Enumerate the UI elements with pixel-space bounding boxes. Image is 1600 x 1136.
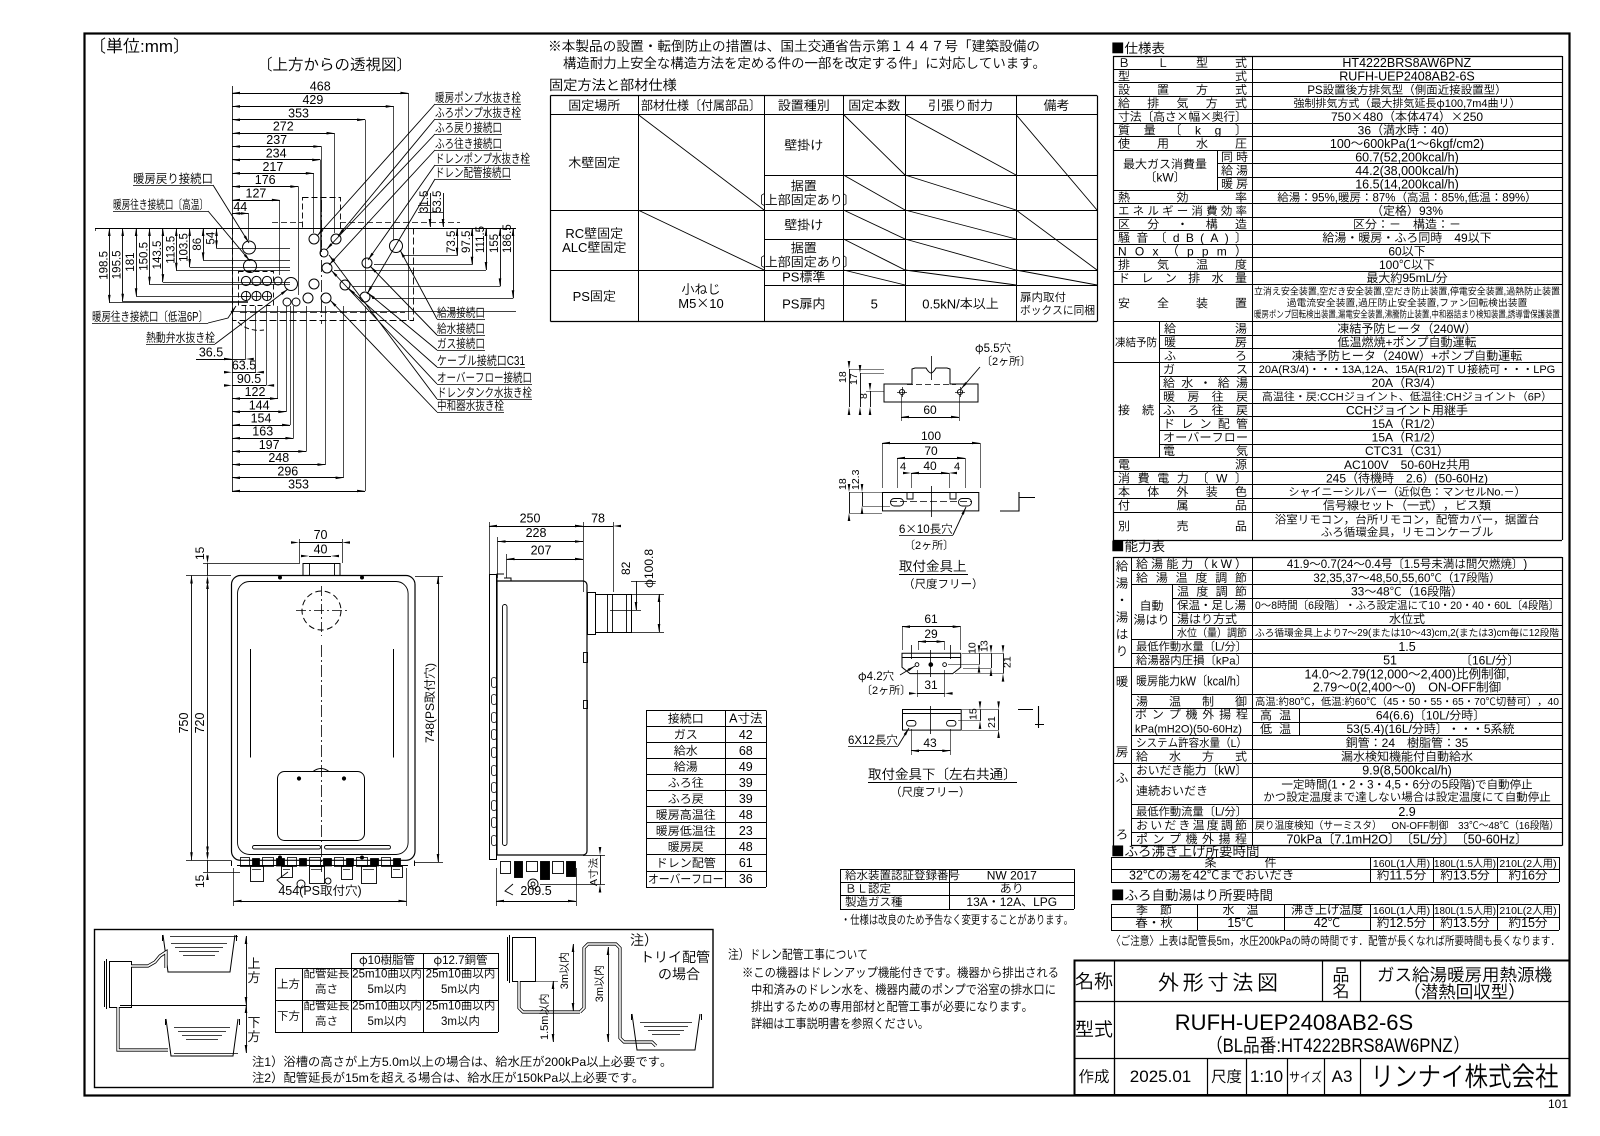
svg-text:35: 35 [1455,736,1469,750]
svg-text:ON-OFF: ON-OFF [1392,821,1429,832]
svg-text:): ) [1553,858,1557,870]
svg-text:5.0m: 5.0m [382,1055,409,1069]
svg-text:PS: PS [782,296,800,311]
svg-text:127: 127 [246,187,267,201]
svg-text:95mL/: 95mL/ [1402,271,1436,285]
piping notes [252,1055,664,1069]
svg-text:15: 15 [193,874,207,888]
svg-text:): ) [1493,906,1496,917]
bracket lower: upper piece [902,653,961,673]
svg-text:49: 49 [1454,231,1468,245]
svg-text:48,50,55,60: 48,50,55,60 [1370,573,1431,585]
svg-text:RUFH-UEP2408AB2-6S: RUFH-UEP2408AB2-6S [1339,70,1474,84]
top view: left dimension stack [95,228,97,231]
bracket upper: phi5.5 label [976,342,1011,355]
svg-text:154: 154 [251,412,272,426]
svg-text:103.5: 103.5 [179,233,191,262]
svg-text:+: + [1431,349,1438,363]
svg-text:25m10: 25m10 [352,1001,387,1013]
svg-text:16: 16 [1521,868,1535,882]
svg-text:93%: 93% [1419,204,1443,218]
svg-text:LPG: LPG [1033,895,1057,909]
svg-text:0.7(24: 0.7(24 [1321,559,1354,571]
svg-text:245: 245 [1326,471,1346,485]
svg-text:70: 70 [314,528,328,542]
svg-text:17: 17 [848,373,860,385]
svg-text:ALC: ALC [562,240,587,255]
svg-text:4.2: 4.2 [867,671,883,683]
svg-text:21: 21 [986,716,998,728]
svg-text:111.5: 111.5 [475,226,487,253]
svg-text:49: 49 [739,760,753,774]
svg-text:A: A [588,879,600,886]
svg-text:W: W [1221,557,1233,571]
svg-text:PS: PS [1307,85,1323,97]
svg-text:A3: A3 [1332,1067,1353,1086]
svg-text:12: 12 [1529,628,1540,639]
svg-text:PS: PS [782,270,800,285]
svg-text:0): 0) [1405,681,1416,695]
side view small slots [492,678,497,688]
svg-text:16.5(14,200kcal/h): 16.5(14,200kcal/h) [1355,177,1459,191]
svg-text:N: N [1118,244,1127,258]
side view dim 82 [636,581,638,610]
svg-text:195.5: 195.5 [112,250,124,279]
svg-text:PS: PS [573,289,591,304]
svg-text:16: 16 [1414,585,1428,599]
svg-text:42: 42 [739,728,753,742]
front view left dims [191,576,193,861]
svg-text:20: 20 [1450,600,1462,612]
svg-text:36.5: 36.5 [199,346,223,360]
svg-text:160L(1: 160L(1 [1373,858,1406,870]
svg-text::CH: :CH [1443,391,1462,403]
svg-text:64(6.6): 64(6.6) [1376,708,1414,722]
svg-text:210L(2: 210L(2 [1499,858,1532,870]
svg-text:6: 6 [899,524,905,536]
svg-text:3m: 3m [441,1016,457,1028]
svg-text:4: 4 [1522,600,1528,612]
svg-text:6P: 6P [187,311,199,325]
bracket lower: phi4.2 label [859,670,894,683]
svg-text:(: ( [1200,231,1204,245]
svg-text:720: 720 [193,713,207,734]
svg-text:176: 176 [255,173,276,187]
svg-text:): ) [1553,905,1557,917]
svg-text:,: , [1336,309,1338,320]
bracket upper: top view dims [882,443,980,445]
svg-text:20A(R3/4): 20A(R3/4) [1259,364,1309,376]
svg-text:29(: 29( [1357,628,1372,639]
connection size table [646,711,648,888]
side view A dim [600,855,602,885]
piping diag: upper tub [163,935,235,972]
svg-text:): ) [1427,858,1431,870]
svg-text:24: 24 [1382,736,1396,750]
svg-text:42: 42 [1314,916,1328,930]
bracket lower: dim 43 [911,750,950,752]
bracket lower: L profile [1038,706,1040,728]
svg-text:2.79: 2.79 [1313,681,1337,695]
side view top dims [489,526,583,528]
svg-text:12.7: 12.7 [442,955,464,967]
svg-text:L/: L/ [1215,641,1225,653]
svg-text:3m: 3m [594,987,606,1002]
svg-text:43)cm,2(: 43)cm,2( [1421,628,1460,639]
svg-text:5.5: 5.5 [984,343,1000,355]
svg-text:70kPa: 70kPa [1286,832,1321,846]
svg-text:1.5m: 1.5m [539,1016,551,1040]
torii piping: dims [553,981,555,1042]
unit note [101,37,178,56]
svg-text:CCH: CCH [1346,403,1372,417]
svg-text:63.5: 63.5 [232,359,256,373]
svg-text:kW: kW [1156,170,1174,184]
svg-text:240W: 240W [1388,349,1420,363]
optional parts row [1113,512,1562,514]
svg-text:,: , [1317,285,1319,296]
svg-text:18: 18 [837,478,849,490]
side view right small parts [584,653,588,663]
svg-text:13A,12A: 13A,12A [1342,364,1385,376]
svg-text:C31: C31 [1415,444,1437,458]
svg-text:89%: 89% [1502,192,1525,204]
bracket upper: top view [883,493,979,511]
svg-text:70: 70 [1474,697,1486,708]
front view flue collar [303,564,340,576]
svg-text:40: 40 [314,543,328,557]
piping diag: heater [110,962,132,1008]
svg-text:9.9(8,500kcal/h): 9.9(8,500kcal/h) [1362,764,1452,778]
svg-text:65: 65 [1452,697,1464,708]
svg-text:48: 48 [1376,585,1390,599]
svg-text:m: m [1217,244,1227,258]
front view body [232,576,416,861]
svg-text:10: 10 [917,524,930,536]
svg-text:10: 10 [967,642,979,654]
svg-text:144: 144 [249,398,270,412]
capacity table title [1112,540,1164,552]
svg-text:0.4: 0.4 [1365,559,1382,571]
svg-text:15: 15 [968,708,980,720]
svg-text:0: 0 [1255,600,1261,612]
svg-text:748(PS: 748(PS [423,703,437,743]
svg-text:,: , [1436,298,1439,309]
svg-text:44.2(38,000kcal/h): 44.2(38,000kcal/h) [1355,164,1459,178]
svg-text:A: A [729,712,738,726]
svg-text:No.: No. [1486,487,1503,499]
svg-text:,: , [1383,309,1385,320]
caution note [1117,935,1554,948]
svg-text:48: 48 [1489,821,1500,832]
svg-text:197: 197 [259,438,280,452]
svg-text:2: 2 [1349,780,1355,792]
svg-text:NW 2017: NW 2017 [987,868,1037,882]
svg-text:(1: (1 [1327,780,1337,792]
svg-text:186.5: 186.5 [502,224,514,253]
top view: unit outline dashed [233,229,414,321]
svg-text:207: 207 [531,544,552,558]
svg-text:100: 100 [1330,137,1351,151]
svg-text:18: 18 [837,371,849,383]
svg-text:55: 55 [1431,697,1443,708]
front view bottom dim 454 [234,901,407,903]
svg-text:,: , [1504,285,1506,296]
bottom left box [95,930,714,1088]
bracket upper: slot label [899,523,952,536]
svg-text:15: 15 [1521,916,1535,930]
svg-text:BL: BL [1223,1035,1243,1056]
svg-text:,: , [1429,309,1431,320]
svg-text:50-60Hz: 50-60Hz [1401,458,1446,472]
svg-text:kPa(mH2O)(50-60Hz): kPa(mH2O)(50-60Hz) [1135,723,1242,735]
svg-text:11.5: 11.5 [1389,868,1412,882]
svg-text:296: 296 [277,464,298,478]
svg-text:5m: 5m [441,984,457,996]
svg-text:160L(1: 160L(1 [1373,905,1406,917]
front view centerline [321,645,323,872]
bracket upper: side profile [884,368,978,402]
svg-text:40: 40 [1431,123,1445,137]
svg-text:17: 17 [1453,573,1466,585]
svg-text:36: 36 [1358,123,1372,137]
6P circles [241,276,250,285]
svg-text:210L(2: 210L(2 [1499,905,1532,917]
svg-text:(50-60Hz): (50-60Hz) [1435,471,1488,485]
bracket lower: dims 61 29 [902,626,961,628]
svg-text::CCH: :CCH [1317,391,1344,403]
svg-text:p: p [1202,244,1209,258]
bracket lower: dim 31 [917,693,945,695]
svg-text:2.79(12,000: 2.79(12,000 [1341,668,1408,682]
svg-text:15: 15 [193,546,207,560]
certification table [840,869,842,909]
piping diag: lower tub [166,1019,238,1056]
svg-text:6X12: 6X12 [848,735,875,747]
svg-text:155: 155 [489,234,501,253]
svg-text:80: 80 [1289,697,1301,708]
top view: niche bottom line [232,311,516,313]
svg-text:5m: 5m [1217,935,1230,948]
front view right dim 748 [438,576,440,862]
svg-text:,: , [1506,309,1508,320]
svg-text:97.5: 97.5 [461,231,473,253]
front view top dim 40 [309,556,331,558]
svg-text:): ) [1471,780,1475,792]
svg-text:4,5: 4,5 [1385,780,1401,792]
piping diag: pipes [131,952,166,968]
top view: right lower callouts [437,307,483,319]
svg-text:86: 86 [192,238,204,251]
svg-text:181: 181 [125,253,137,272]
side view long slot [503,605,508,846]
svg-text:d: d [1173,231,1180,245]
svg-text:248: 248 [268,451,289,465]
svg-text:40: 40 [923,459,937,473]
svg-text:12.5: 12.5 [1389,916,1413,930]
installation note [550,39,1039,52]
svg-text:5: 5 [1442,780,1448,792]
svg-text:L: L [1231,737,1237,750]
svg-text:100.8: 100.8 [642,549,656,579]
svg-text::: : [1342,697,1345,708]
sheet number [1548,1097,1568,1111]
svg-text:): ) [1225,231,1229,245]
svg-text:60.7(52,200kcal/h): 60.7(52,200kcal/h) [1355,150,1459,164]
svg-text:6kgf/cm2): 6kgf/cm2) [1429,137,1484,151]
svg-text:13.5: 13.5 [1453,916,1477,930]
svg-text:228: 228 [526,526,547,540]
spec table rows [1113,56,1562,58]
svg-text:353: 353 [288,478,309,492]
svg-text:): ) [423,663,437,667]
svg-text:2: 2 [992,356,998,368]
svg-text:454(PS: 454(PS [278,884,320,898]
svg-text:39: 39 [739,792,753,806]
svg-text:15A: 15A [1372,417,1393,431]
svg-text:): ) [1523,559,1527,571]
svg-text:): ) [1427,905,1431,917]
svg-text:100: 100 [921,429,941,443]
svg-text:50-60Hz: 50-60Hz [1468,832,1515,846]
svg-text:R1/2: R1/2 [1405,431,1431,445]
svg-text:70: 70 [924,444,938,458]
fixing table 固定方法と部材仕様 [551,95,1098,97]
svg-text:150kPa: 150kPa [516,1071,558,1085]
svg-text:39: 39 [739,776,753,790]
svg-text:60: 60 [923,403,937,417]
torii piping: pipes [519,981,580,1012]
svg-text:RC: RC [565,226,584,241]
top view title [268,57,401,72]
svg-text:32: 32 [1129,868,1143,882]
capacity table [1131,557,1562,559]
svg-text:13: 13 [979,640,991,652]
svg-text:240W: 240W [1433,322,1465,336]
top view: right upper callouts [436,91,521,103]
svg-text:4: 4 [954,461,960,473]
svg-text:g: g [1215,123,1222,137]
svg-text:100: 100 [1379,258,1399,272]
spec table title [1112,42,1164,54]
bracket lower: lower piece [903,710,962,731]
svg-text:10: 10 [368,955,381,967]
svg-text:5m: 5m [368,1016,384,1028]
svg-text:k: k [1211,557,1218,571]
svg-text:L/: L/ [1215,806,1225,818]
svg-text:p: p [1187,244,1194,258]
torii piping: heater [513,938,536,982]
svg-text:1:10: 1:10 [1250,1067,1283,1086]
bath boil table title [1112,845,1258,857]
svg-text:8: 8 [1271,600,1277,612]
svg-text:15m: 15m [345,1071,369,1085]
svg-text:209.5: 209.5 [520,884,551,898]
svg-text:kcal/h: kcal/h [1207,675,1236,689]
torii piping: note [631,933,649,946]
bath boil table [1111,857,1113,882]
side view bottom connectors [501,862,511,874]
svg-text:217: 217 [262,160,283,174]
svg-text:48: 48 [739,808,753,822]
svg-text:,: , [1506,668,1509,682]
piping table [351,953,498,955]
svg-text:4: 4 [900,461,906,473]
svg-text:21: 21 [1002,656,1014,668]
svg-text:33: 33 [1458,821,1469,832]
svg-text:468: 468 [310,80,331,94]
svg-text:61: 61 [924,612,938,626]
bracket upper: left dims 18 17 8 [849,369,851,407]
top view: right lower dims [457,228,459,256]
svg-text:25m10: 25m10 [352,969,387,981]
front view top screws [279,576,282,579]
svg-text:51: 51 [1383,654,1397,668]
svg-text:6P: 6P [1528,391,1541,403]
svg-text:+: + [1385,335,1392,349]
svg-text:ON-OFF: ON-OFF [1428,681,1476,695]
top view: flue centerline [321,200,323,324]
svg-text:95%,: 95%, [1312,192,1338,204]
top view: 6P connector dashed box [239,272,274,306]
svg-text:2: 2 [915,540,921,552]
svg-text:3)cm: 3)cm [1488,628,1509,639]
svg-text:5L/: 5L/ [1413,832,1431,846]
svg-text:90.5: 90.5 [237,372,261,386]
svg-text:143.5: 143.5 [152,241,164,270]
bracket lower: right dims 15 21 [980,709,982,721]
top view: flue dashed box [303,198,341,229]
svg-text:25m10: 25m10 [426,1001,461,1013]
svg-text::: : [1276,697,1279,708]
svg-text:2,400): 2,400) [1421,668,1456,682]
svg-text:C31: C31 [507,355,525,368]
bracket upper: left dims 18 12.3 [849,492,851,513]
top view: connector circles [243,241,256,254]
title block [1075,961,1570,1096]
svg-text:50: 50 [1409,697,1421,708]
svg-text:82: 82 [619,561,633,575]
svg-text:5m: 5m [368,984,384,996]
spec change note [845,914,1067,925]
svg-text:42: 42 [1193,868,1207,882]
svg-text:150.5: 150.5 [139,242,151,271]
svg-text:A: A [1210,231,1218,245]
svg-text:53.5: 53.5 [432,191,444,213]
svg-text:60: 60 [1355,697,1367,708]
svg-text:8: 8 [858,393,870,399]
bracket upper: title [899,560,965,572]
svg-text:15A: 15A [1372,431,1393,445]
svg-text:7.1mH2O: 7.1mH2O [1334,832,1388,846]
svg-text:750: 750 [1331,110,1351,124]
svg-text:73.5: 73.5 [446,231,458,253]
svg-text:LPG: LPG [1533,364,1555,376]
svg-text:600kPa(1: 600kPa(1 [1363,137,1417,151]
svg-text:0.5kN/: 0.5kN/ [922,296,960,311]
svg-text:CTC31: CTC31 [1365,444,1403,458]
svg-text:12A: 12A [1000,895,1021,909]
svg-text:16L/: 16L/ [1472,654,1496,668]
svg-text:16: 16 [1519,821,1530,832]
svg-text:): ) [1493,859,1496,870]
svg-text:5: 5 [871,296,878,311]
svg-text:43: 43 [923,736,937,750]
bracket lower: slot label [848,734,897,747]
svg-text:B: B [1186,231,1194,245]
top view: right upper dims 31.5 53.5 [430,193,432,227]
svg-text:x: x [1152,244,1158,258]
